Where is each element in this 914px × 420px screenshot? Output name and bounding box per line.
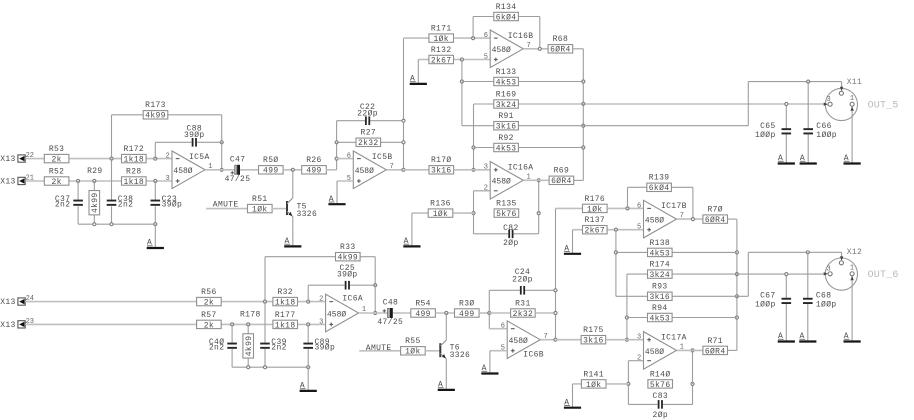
- svg-text:2: 2: [484, 185, 488, 193]
- svg-text:499: 499: [459, 310, 474, 319]
- capacitor C40: [209, 338, 237, 353]
- svg-text:A: A: [482, 364, 487, 373]
- svg-text:1k18: 1k18: [275, 321, 296, 330]
- wire: [627, 273, 648, 275]
- svg-text:R139: R139: [649, 174, 670, 183]
- resistor R53: [44, 145, 69, 165]
- junction: [291, 168, 294, 171]
- wire: [663, 403, 693, 405]
- wire: [616, 251, 648, 253]
- svg-text:5: 5: [637, 224, 641, 232]
- wire: [25, 323, 197, 325]
- wire: [240, 169, 259, 171]
- junction: [554, 289, 557, 292]
- resistor R140: [648, 370, 673, 390]
- wire: [221, 323, 273, 325]
- junction: [247, 323, 250, 326]
- junction: [472, 212, 475, 215]
- wire: [535, 312, 555, 314]
- junction: [807, 80, 810, 83]
- wire (IC17A pin 2): [628, 360, 643, 362]
- wire: [93, 181, 95, 191]
- wire: [474, 103, 494, 105]
- svg-text:X13: X13: [0, 155, 15, 164]
- wire: [168, 114, 222, 116]
- svg-text:R175: R175: [583, 326, 604, 335]
- capacitor C25: [337, 264, 358, 289]
- op-amp IC6B: [501, 321, 548, 360]
- resistor R177: [273, 311, 298, 331]
- svg-text:C66: C66: [816, 122, 831, 131]
- junction: [445, 311, 448, 314]
- svg-text:R56: R56: [201, 288, 216, 297]
- junction: [472, 37, 475, 40]
- junction: [691, 382, 694, 385]
- wire: [370, 120, 403, 122]
- wire (pin6 drop): [488, 313, 490, 329]
- wire (output sense bus): [736, 219, 738, 350]
- svg-text:R141: R141: [583, 370, 604, 379]
- ground: [481, 364, 498, 373]
- wire: [672, 317, 737, 319]
- svg-text:IC17A: IC17A: [661, 334, 687, 343]
- svg-text:1Øk: 1Øk: [405, 348, 420, 357]
- wire (AMUTE net): [359, 350, 401, 352]
- resistor R93: [648, 283, 673, 303]
- ground: [778, 332, 795, 341]
- svg-text:3: 3: [484, 164, 488, 172]
- junction: [625, 338, 628, 341]
- wire: [453, 212, 474, 214]
- svg-text:R177: R177: [275, 311, 296, 320]
- junction: [472, 168, 475, 171]
- junction: [460, 58, 463, 61]
- resistor R170: [429, 156, 454, 176]
- wire: [231, 324, 233, 342]
- wire (C68 stem): [807, 252, 809, 298]
- svg-text:2k67: 2k67: [584, 227, 605, 236]
- wire: [247, 358, 249, 367]
- wire (IC16A output): [524, 179, 550, 181]
- wire: [573, 48, 583, 50]
- wire: [307, 324, 309, 342]
- wire: [747, 252, 749, 296]
- wire: [265, 256, 335, 258]
- wire: [77, 181, 79, 200]
- capacitor C48 (electrolytic): [377, 299, 403, 328]
- wire (pin5 node vertical): [615, 230, 617, 297]
- svg-text:4k53: 4k53: [496, 78, 517, 87]
- wire: [337, 120, 365, 122]
- svg-text:1Øk: 1Øk: [587, 205, 602, 214]
- junction: [307, 366, 310, 369]
- svg-text:47/25: 47/25: [225, 175, 251, 184]
- svg-text:R176: R176: [584, 195, 605, 204]
- ground: [438, 381, 455, 390]
- svg-text:R178: R178: [240, 310, 261, 319]
- svg-text:2k32: 2k32: [358, 139, 379, 148]
- ground: [410, 75, 427, 84]
- svg-text:R171: R171: [431, 25, 452, 34]
- resistor R169: [494, 90, 519, 110]
- svg-text:A: A: [285, 237, 290, 246]
- wire: [336, 181, 338, 204]
- svg-text:3k16: 3k16: [583, 337, 604, 346]
- wire: [146, 180, 172, 182]
- svg-text:39Øp: 39Øp: [337, 271, 358, 280]
- wire: [111, 115, 113, 159]
- resistor R56: [197, 288, 222, 308]
- svg-text:R32: R32: [277, 288, 292, 297]
- ground: [284, 237, 301, 246]
- ground: [328, 195, 345, 204]
- wire (output node vertical): [555, 208, 557, 339]
- svg-text:IC6A: IC6A: [342, 294, 363, 303]
- wire: [692, 187, 694, 219]
- svg-text:6: 6: [347, 153, 351, 161]
- junction: [110, 223, 113, 226]
- svg-text:458Ø: 458Ø: [492, 178, 511, 187]
- junction: [691, 349, 694, 352]
- svg-text:R174: R174: [649, 261, 670, 270]
- svg-text:458Ø: 458Ø: [327, 310, 346, 319]
- capacitor C22: [357, 103, 378, 125]
- resistor R176: [583, 195, 608, 215]
- capacitor C89: [303, 338, 335, 353]
- wire: [308, 284, 344, 286]
- svg-text:39Øp: 39Øp: [162, 201, 183, 210]
- svg-text:R29: R29: [87, 167, 102, 176]
- svg-text:R173: R173: [145, 101, 166, 110]
- wire: [25, 301, 197, 303]
- svg-text:2n2: 2n2: [55, 201, 70, 210]
- wire: [841, 82, 843, 88]
- op-amp IC17B: [637, 200, 687, 238]
- svg-text:R27: R27: [361, 129, 376, 138]
- wire: [307, 349, 309, 367]
- svg-text:X11: X11: [847, 78, 862, 87]
- junction: [154, 179, 157, 182]
- svg-text:1ØØp: 1ØØp: [816, 300, 837, 309]
- wire: [297, 301, 325, 303]
- resistor R137: [583, 216, 608, 236]
- wire: [155, 141, 191, 143]
- svg-text:458Ø: 458Ø: [645, 217, 664, 226]
- svg-text:A: A: [564, 245, 569, 254]
- svg-text:6: 6: [501, 323, 505, 331]
- wire: [374, 285, 376, 313]
- svg-text:2n2: 2n2: [118, 201, 133, 210]
- svg-text:1k18: 1k18: [123, 156, 144, 165]
- connector X13 pin 23: [0, 318, 34, 330]
- wire (T6 emitter): [445, 359, 447, 390]
- svg-text:R134: R134: [496, 3, 517, 12]
- svg-text:C83: C83: [653, 392, 668, 401]
- wire (T5 collector): [292, 170, 294, 198]
- svg-text:3k16: 3k16: [431, 167, 452, 176]
- wire: [350, 284, 375, 286]
- ground: [403, 237, 420, 246]
- wire (to X12 pin 3): [672, 273, 824, 275]
- svg-text:R137: R137: [584, 216, 605, 225]
- resistor R174: [648, 261, 673, 281]
- wire: [728, 349, 737, 351]
- svg-text:5k76: 5k76: [650, 381, 671, 390]
- svg-text:3k16: 3k16: [496, 123, 517, 132]
- wire: [374, 257, 376, 286]
- wire: [231, 349, 233, 367]
- wire (X11 pin 2 feed): [748, 81, 841, 83]
- svg-text:R133: R133: [496, 68, 517, 77]
- svg-text:X13: X13: [0, 321, 15, 330]
- connector X11 (OUT_5): [824, 78, 899, 120]
- junction: [307, 323, 310, 326]
- wire: [606, 339, 644, 341]
- resistor R26: [302, 156, 327, 176]
- op-amp IC5A: [166, 151, 213, 189]
- wire (IC6B pin 6): [489, 328, 507, 330]
- svg-text:1k18: 1k18: [275, 299, 296, 308]
- svg-text:OUT_5: OUT_5: [868, 100, 899, 111]
- svg-text:499: 499: [306, 167, 321, 176]
- resistor R28: [122, 167, 147, 187]
- resistor R31: [511, 299, 536, 319]
- resistor R139: [647, 174, 672, 194]
- wire: [381, 141, 404, 143]
- svg-text:3326: 3326: [450, 351, 471, 360]
- svg-text:2k: 2k: [51, 156, 61, 165]
- wire: [25, 180, 44, 182]
- wire: [454, 59, 491, 61]
- capacitor C65: [755, 122, 791, 140]
- resistor R133: [494, 68, 519, 88]
- wire: [627, 187, 629, 208]
- wire: [627, 384, 629, 405]
- capacitor C47 (electrolytic): [225, 156, 251, 185]
- capacitor C24: [512, 268, 533, 295]
- svg-text:R132: R132: [431, 46, 452, 55]
- svg-text:4k99: 4k99: [337, 254, 358, 263]
- transistor T6: [440, 340, 470, 360]
- wire: [616, 295, 648, 297]
- wire (to R176): [556, 207, 583, 209]
- wire: [574, 179, 583, 181]
- wire (filter ground rail): [78, 223, 155, 225]
- resistor R30: [455, 299, 480, 319]
- svg-text:IC6B: IC6B: [523, 351, 544, 360]
- ground: [300, 382, 317, 391]
- svg-text:2k67: 2k67: [431, 56, 452, 65]
- op-amp IC6A: [319, 294, 366, 332]
- junction: [735, 273, 738, 276]
- wire (output sense bus): [582, 49, 584, 181]
- svg-text:A: A: [329, 195, 334, 204]
- ground: [844, 154, 861, 163]
- junction: [402, 141, 405, 144]
- svg-text:A: A: [410, 75, 415, 84]
- wire (C24 left leg): [488, 290, 490, 313]
- wire: [360, 256, 375, 258]
- wire: [93, 215, 95, 224]
- resistor R94: [648, 304, 673, 324]
- svg-text:C68: C68: [816, 292, 831, 301]
- junction: [806, 251, 809, 254]
- wire: [307, 367, 309, 391]
- wire: [326, 169, 337, 171]
- wire: [572, 230, 574, 254]
- svg-text:22Øp: 22Øp: [357, 110, 378, 119]
- svg-text:R138: R138: [649, 239, 670, 248]
- svg-text:458Ø: 458Ø: [509, 337, 528, 346]
- junction: [154, 223, 157, 226]
- wire: [283, 169, 303, 171]
- junction: [625, 316, 628, 319]
- wire: [69, 180, 122, 182]
- svg-text:C65: C65: [760, 122, 775, 131]
- wire (T6 collector): [445, 313, 447, 340]
- capacitor C82: [503, 224, 518, 248]
- svg-text:1: 1: [850, 265, 854, 273]
- wire (IC17A output): [677, 349, 703, 351]
- svg-text:1k18: 1k18: [123, 178, 144, 187]
- wire: [462, 81, 494, 83]
- resistor R134: [494, 3, 519, 23]
- svg-text:5: 5: [484, 53, 488, 61]
- svg-text:2n2: 2n2: [271, 344, 286, 353]
- wire: [628, 186, 647, 188]
- wire (pin5 node vertical): [461, 60, 463, 126]
- resistor R68: [548, 35, 573, 55]
- svg-text:R26: R26: [306, 156, 321, 165]
- svg-text:R71: R71: [707, 337, 722, 346]
- junction: [220, 141, 223, 144]
- ground: [147, 239, 164, 248]
- svg-text:R172: R172: [123, 145, 144, 154]
- wire (AMUTE net): [206, 208, 248, 210]
- junction: [154, 157, 157, 160]
- wire: [538, 213, 540, 234]
- wire: [221, 301, 273, 303]
- capacitor C38: [107, 195, 134, 210]
- svg-text:C82: C82: [503, 224, 518, 233]
- wire (filter ground rail): [232, 366, 308, 368]
- svg-text:1Øk: 1Øk: [586, 381, 601, 390]
- svg-text:A: A: [778, 332, 783, 341]
- junction: [247, 366, 250, 369]
- svg-text:IC5A: IC5A: [189, 153, 210, 162]
- svg-text:R54: R54: [415, 299, 430, 308]
- svg-text:2Øp: 2Øp: [653, 411, 668, 420]
- junction: [374, 284, 377, 287]
- svg-text:R51: R51: [252, 195, 267, 204]
- svg-text:R136: R136: [430, 200, 451, 209]
- svg-text:499: 499: [415, 310, 430, 319]
- wire: [747, 82, 749, 126]
- wire: [785, 304, 787, 342]
- svg-text:2Øp: 2Øp: [503, 239, 518, 248]
- wire: [539, 17, 541, 49]
- wire: [154, 142, 156, 158]
- junction: [220, 168, 223, 171]
- svg-text:1Øk: 1Øk: [252, 206, 267, 215]
- wire: [436, 312, 455, 314]
- resistor R71: [703, 337, 728, 357]
- svg-text:6ØR4: 6ØR4: [550, 46, 571, 55]
- wire: [454, 37, 491, 39]
- wire: [556, 339, 582, 341]
- resistor R91: [494, 112, 519, 132]
- wire: [489, 289, 520, 291]
- connector X13 pin 21: [0, 174, 34, 186]
- svg-text:2k32: 2k32: [513, 310, 534, 319]
- svg-text:IC5B: IC5B: [372, 153, 393, 162]
- svg-text:4k53: 4k53: [649, 314, 670, 323]
- wire (IC16A pin 2): [474, 190, 491, 192]
- junction: [374, 311, 377, 314]
- wire (to X11 pin 3): [518, 103, 823, 105]
- capacitor C39: [260, 338, 287, 353]
- svg-text:A: A: [800, 154, 805, 163]
- svg-text:5k76: 5k76: [496, 210, 517, 219]
- svg-text:A: A: [800, 332, 805, 341]
- svg-text:458Ø: 458Ø: [355, 167, 374, 176]
- resistor R69: [549, 167, 574, 187]
- wire (pin3 node vertical): [626, 274, 628, 340]
- wire: [489, 312, 510, 314]
- wire: [692, 384, 694, 405]
- svg-text:C48: C48: [383, 299, 398, 308]
- resistor R173: [143, 101, 168, 121]
- svg-text:A: A: [564, 398, 569, 407]
- wire: [671, 186, 693, 188]
- junction: [785, 102, 788, 105]
- wire: [474, 233, 509, 235]
- svg-text:2: 2: [166, 153, 170, 161]
- wire (IC17B output): [677, 218, 703, 220]
- svg-text:1ØØp: 1ØØp: [755, 131, 776, 140]
- svg-text:499: 499: [263, 167, 278, 176]
- wire (X11 pin 1 to ground): [851, 106, 853, 163]
- junction: [460, 80, 463, 83]
- wire: [473, 16, 494, 18]
- ground: [778, 154, 795, 163]
- svg-text:3: 3: [319, 318, 323, 326]
- wire (X12 pin 2 feed): [748, 251, 841, 253]
- svg-text:1ØØp: 1ØØp: [755, 300, 776, 309]
- junction: [554, 311, 557, 314]
- svg-text:IC17B: IC17B: [661, 202, 687, 211]
- wire: [411, 213, 413, 246]
- wire: [111, 159, 113, 200]
- wire: [479, 312, 489, 314]
- resistor R55: [401, 337, 426, 357]
- junction: [537, 212, 540, 215]
- svg-text:2: 2: [319, 296, 323, 304]
- wire (IC6A output): [359, 312, 388, 314]
- wire: [785, 134, 787, 163]
- wire: [264, 257, 266, 302]
- op-amp IC16A: [484, 162, 534, 200]
- svg-text:458Ø: 458Ø: [645, 348, 664, 357]
- svg-text:A: A: [438, 381, 443, 390]
- capacitor C37: [55, 195, 83, 210]
- junction: [614, 228, 617, 231]
- resistor R178: [240, 310, 261, 358]
- svg-text:22Øp: 22Øp: [512, 276, 533, 285]
- svg-text:R92: R92: [498, 134, 513, 143]
- wire (to X12 pin 2): [672, 295, 748, 297]
- svg-text:X13: X13: [0, 298, 15, 307]
